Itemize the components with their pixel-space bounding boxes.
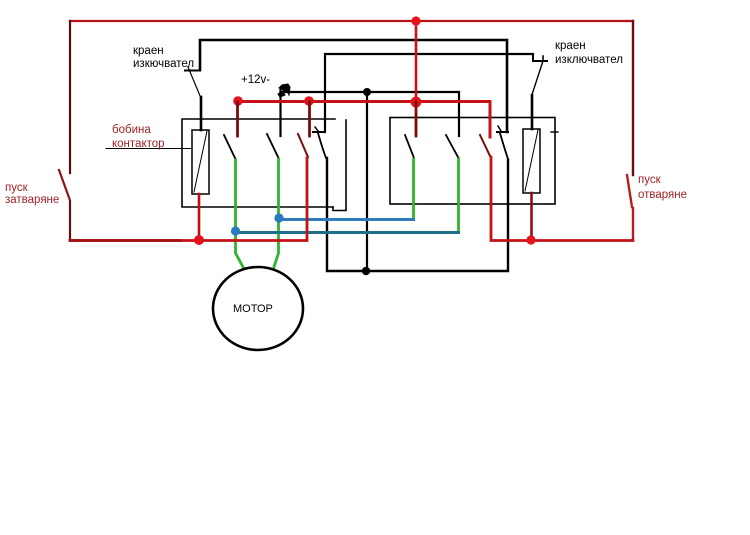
wire: black bottom link y=271 <box>327 158 508 271</box>
wire: right loop vertical upper <box>632 21 634 175</box>
contact K1.4 bar <box>313 131 325 133</box>
wire: green motor lead from K1.2 <box>274 159 279 267</box>
wire: blue link upper y=219 <box>279 218 414 221</box>
label pointer line to coil K1 <box>106 148 192 150</box>
contactor box K1 outline <box>182 119 335 207</box>
wire: contact K1.3 feed stub <box>308 102 311 136</box>
contact K2.4 bar <box>497 131 508 133</box>
junction: red dot at coil K2 bottom <box>526 235 535 244</box>
contact K2.3 blade <box>480 135 491 157</box>
junction: blue dot on green K1.1 lead <box>231 226 240 235</box>
+12v arrow marker <box>278 84 290 97</box>
contactor box K1 right edge <box>333 120 346 211</box>
svg-text:пуск: пуск <box>638 174 662 186</box>
contact K2.4 blade <box>500 133 508 159</box>
junction: red dot bus left end <box>233 96 243 106</box>
svg-text:контактор: контактор <box>112 138 165 150</box>
wire: green motor lead from K1.1 <box>236 160 244 267</box>
junction: dot on +12v bus <box>363 88 371 96</box>
limit switch SW3 blade <box>188 67 201 97</box>
contact K1.1 blade <box>224 135 236 159</box>
wire: left loop vertical upper <box>69 21 71 173</box>
svg-text:затваряне: затваряне <box>5 194 59 206</box>
limit switch SW3 (краен изкючвател, left) fixed terminal bar <box>185 70 200 72</box>
svg-text:изключвател: изключвател <box>555 54 623 66</box>
wire: green lead from K2.2 <box>457 159 460 232</box>
svg-text:изкючвател: изкючвател <box>133 58 194 70</box>
stray tick on box K2 right edge <box>551 131 558 133</box>
wire: green lead from K2.1 <box>412 159 415 218</box>
wire: red top line of pushbutton loop <box>70 20 633 22</box>
contact K1.4 tick <box>315 127 318 131</box>
contact K1.4 blade <box>318 133 326 158</box>
svg-text:+12v-: +12v- <box>241 74 270 86</box>
wire: black bus y=54 from contact K1.4 to right limit switch <box>325 54 533 132</box>
pushbutton SW2 (пуск отваряне) blade <box>627 175 632 207</box>
junction: dot on bottom link <box>362 267 370 275</box>
wire: blue link lower y=232 <box>236 231 459 234</box>
wire: SW3 to coil K1 top <box>200 97 203 130</box>
junction: blue dot on green K1.2 lead <box>274 213 283 222</box>
motor M1 circle <box>213 267 303 350</box>
junction: red dot bus at riser <box>411 97 422 108</box>
limit switch SW4 blade <box>533 61 544 93</box>
wire: black bus from left limit switch top, y=40 <box>200 40 507 132</box>
wire: coil K1 bottom to red line <box>198 194 201 240</box>
wire: +12v black bus y=92 <box>281 92 459 136</box>
wire: contact K1.2 feed <box>279 90 281 136</box>
svg-text:краен: краен <box>555 40 586 52</box>
contact K2.1 blade <box>405 135 414 158</box>
junction: red dot bus at contact K1.3 feed <box>304 96 314 106</box>
wire: contact K1.1 feed stub <box>236 102 239 136</box>
junction: red dot at coil K1 bottom <box>194 235 204 245</box>
contact K2.4 tick <box>498 126 501 131</box>
wire: contact K2.1 feed stub <box>415 102 418 136</box>
svg-text:бобина: бобина <box>112 124 151 136</box>
wire: red bottom line left <box>70 158 307 241</box>
coil K2 rectangle <box>523 129 540 193</box>
svg-text:краен: краен <box>133 45 164 57</box>
wire: coil K2 bottom to red line <box>530 193 533 240</box>
svg-text:отваряне: отваряне <box>638 189 687 201</box>
pushbutton SW1 (пуск затваряне) blade <box>59 170 70 199</box>
wire: red +12v bus y=101 <box>238 102 490 138</box>
contact K1.3 blade <box>298 134 308 157</box>
wire: left loop vertical lower <box>69 201 71 240</box>
limit switch SW4 (краен изключвател, right) terminal drop <box>533 55 547 61</box>
contact K2.2 blade <box>446 135 459 158</box>
junction: red dot on top line <box>411 16 420 25</box>
contactor box K2 outline <box>390 118 555 205</box>
limit switch SW4 tick <box>542 56 544 61</box>
coil K2 diagonal <box>525 130 538 191</box>
wire: red riser from top line to +12v bus <box>415 21 418 102</box>
contact K1.2 blade <box>267 134 279 158</box>
wire: right loop vertical lower <box>632 208 634 240</box>
svg-text:МОТОР: МОТОР <box>233 303 273 315</box>
wire: black riser x=367 between boxes <box>366 92 368 271</box>
coil K1 diagonal <box>194 131 207 192</box>
svg-text:пуск: пуск <box>5 182 29 194</box>
coil K1 rectangle <box>192 130 209 194</box>
wire: red bottom line right <box>491 157 633 241</box>
wire: SW4 to coil K2 top <box>531 95 534 129</box>
